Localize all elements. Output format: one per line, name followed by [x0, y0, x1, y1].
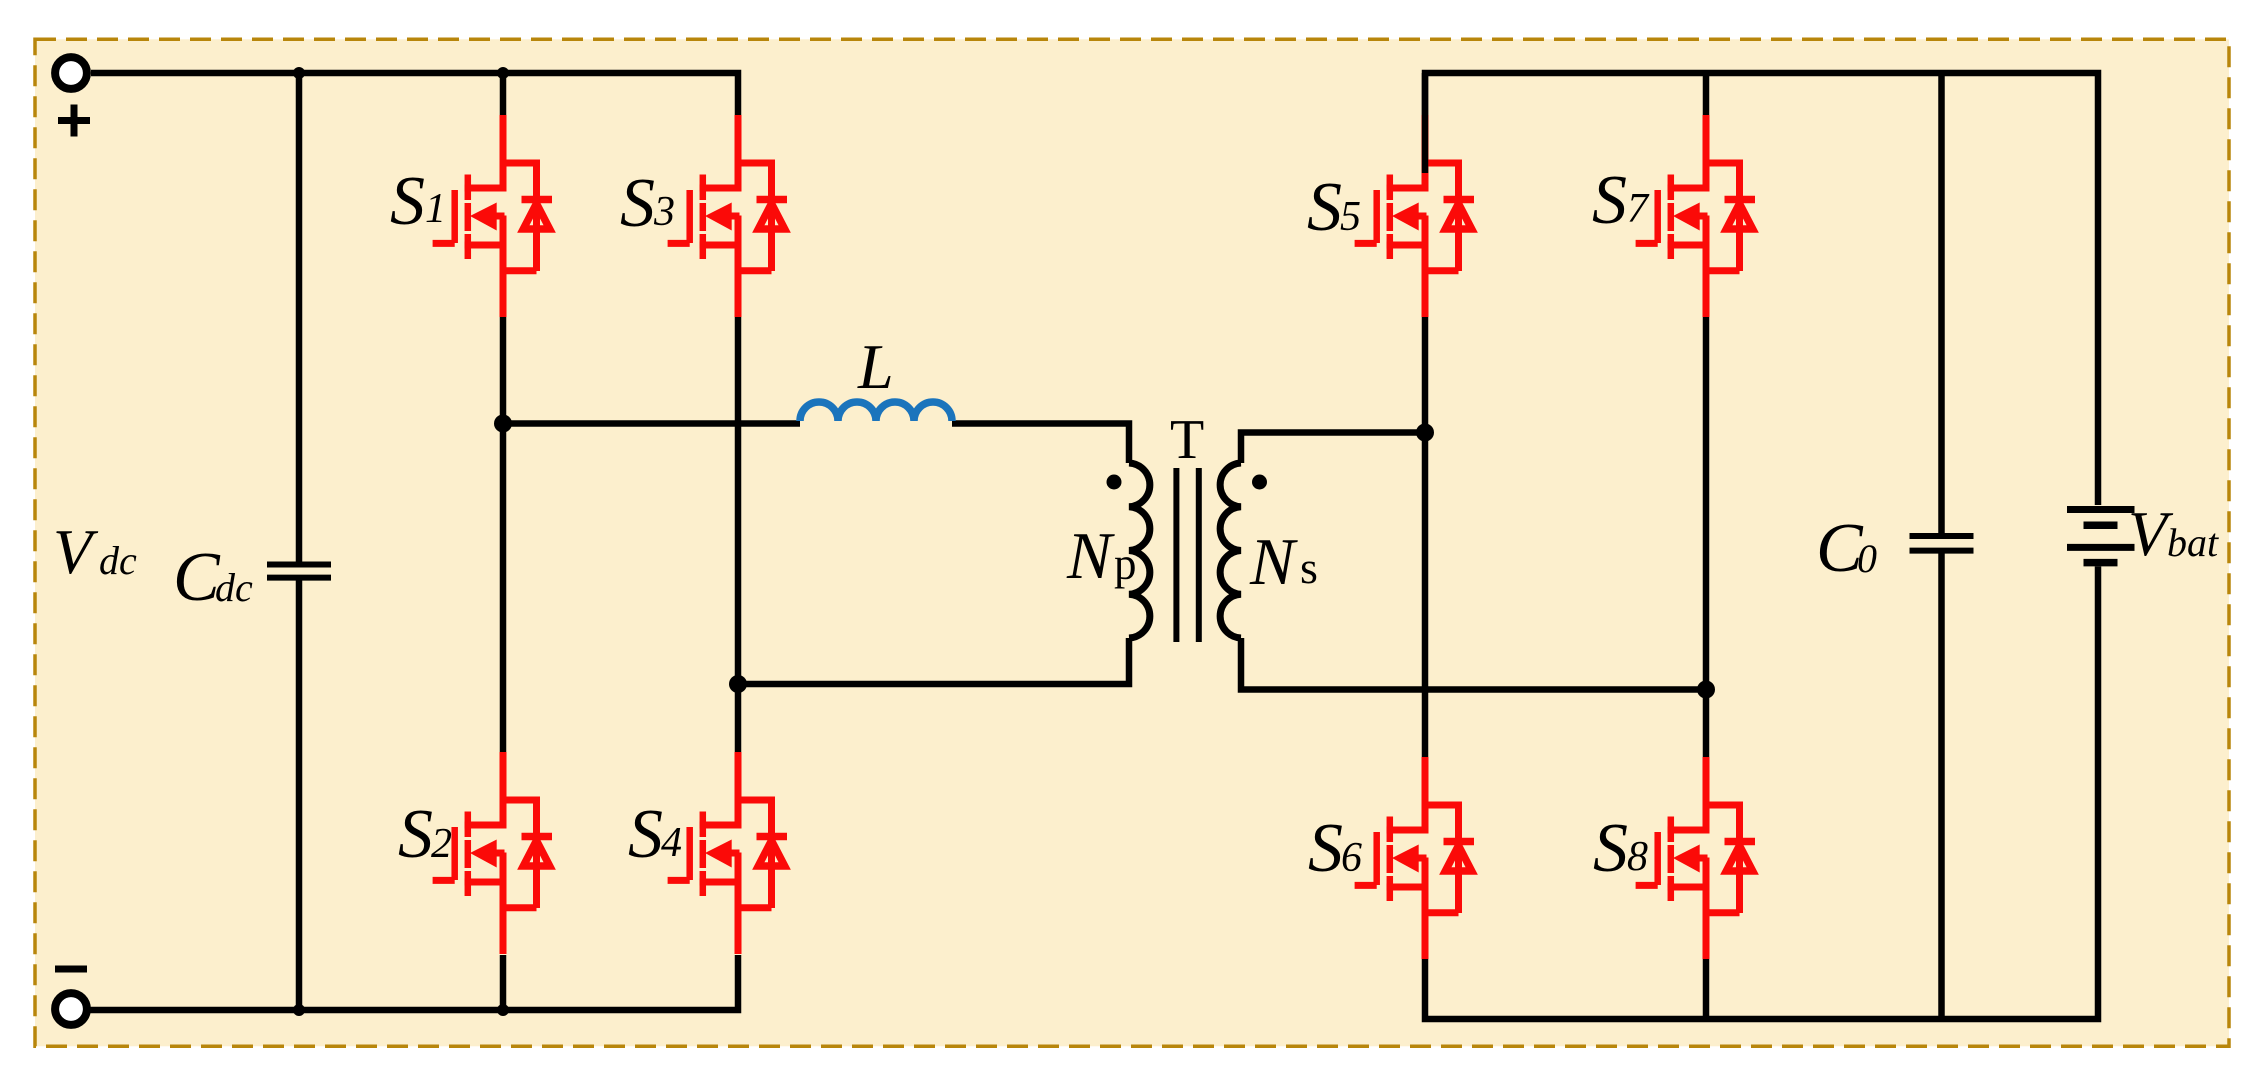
- junction bottom rail / Cdc: [293, 1004, 305, 1016]
- capacitor Cdc: [267, 565, 331, 578]
- svg-text:N: N: [1249, 525, 1298, 599]
- wire S2 source stub: [500, 955, 507, 1010]
- svg-text:p: p: [1114, 539, 1137, 589]
- svg-text:N: N: [1066, 519, 1115, 593]
- svg-text:S: S: [1308, 810, 1343, 887]
- label S8: [1593, 810, 1648, 887]
- wire bottom-left rail: [90, 955, 738, 1010]
- Vdc + terminal: [55, 57, 87, 89]
- inductor L: [800, 402, 952, 421]
- svg-text:4: 4: [661, 820, 682, 866]
- label S1: [390, 163, 446, 240]
- svg-text:dc: dc: [215, 565, 253, 610]
- svg-text:dc: dc: [99, 538, 137, 583]
- junction top rail / S1: [497, 67, 509, 79]
- wire S7-S8 interconnect: [1703, 316, 1710, 757]
- wire S8 source stub: [1703, 959, 1710, 1019]
- secondary polarity dot: [1252, 475, 1267, 490]
- wire inductor to primary top: [952, 424, 1129, 464]
- svg-text:T: T: [1170, 409, 1204, 471]
- wire S5 drain stub (black): [1422, 73, 1429, 173]
- label Np: [1066, 519, 1137, 593]
- junction bottom rail / S2: [497, 1004, 509, 1016]
- svg-text:0: 0: [1857, 536, 1877, 581]
- wire top-right rail: [1425, 73, 2098, 505]
- junction node D (S7-S8 midpoint): [1697, 681, 1715, 699]
- transistor S5 (MOSFET): [1355, 115, 1474, 317]
- transistor S4 (MOSFET): [668, 752, 787, 954]
- label S4: [628, 796, 682, 873]
- junction node C (S5-S6 midpoint): [1416, 424, 1434, 442]
- svg-text:S: S: [1593, 810, 1628, 887]
- junction node A (S1-S2 midpoint): [494, 415, 512, 433]
- transistor S3 (MOSFET): [668, 115, 787, 317]
- svg-text:S: S: [390, 163, 425, 240]
- label S3: [620, 165, 675, 242]
- Vdc - terminal: [55, 993, 87, 1025]
- label Cdc: [173, 539, 253, 616]
- wire S1 drain stub: [500, 73, 507, 116]
- label S5: [1307, 169, 1361, 246]
- transistor S2 (MOSFET): [433, 752, 552, 954]
- svg-text:C: C: [173, 539, 221, 616]
- svg-text:S: S: [628, 796, 663, 873]
- wire secondary bottom lead: [1241, 638, 1706, 690]
- battery Vbat: [2067, 510, 2135, 563]
- transistor S8 (MOSFET): [1636, 757, 1755, 959]
- capacitor C0: [1910, 536, 1974, 551]
- svg-text:7: 7: [1627, 186, 1650, 232]
- wire primary bottom lead: [738, 638, 1129, 684]
- svg-text:S: S: [398, 796, 433, 873]
- transformer T primary winding: [1129, 463, 1150, 638]
- wire bottom-right rail: [1425, 567, 2098, 1020]
- wire S1-S2 interconnect: [500, 316, 507, 752]
- wire S5-S6 interconnect: [1422, 316, 1429, 757]
- transformer T secondary winding: [1220, 463, 1241, 638]
- transistor S6 (MOSFET): [1355, 757, 1474, 959]
- svg-text:S: S: [1592, 162, 1627, 239]
- wire top-left rail: [91, 73, 738, 116]
- label S7: [1592, 162, 1650, 239]
- primary polarity dot: [1107, 475, 1122, 490]
- wire S3-S4 interconnect: [735, 316, 742, 752]
- svg-text:3: 3: [653, 189, 675, 235]
- svg-text:S: S: [1307, 169, 1342, 246]
- svg-text:S: S: [620, 165, 655, 242]
- label C0: [1816, 510, 1877, 587]
- transistor S7 (MOSFET): [1636, 115, 1755, 317]
- transistor S1 (MOSFET): [433, 115, 552, 317]
- svg-text:2: 2: [431, 821, 452, 867]
- label Ns: [1249, 525, 1318, 599]
- wire secondary top lead: [1241, 433, 1425, 464]
- wire S7 drain stub: [1703, 73, 1710, 116]
- label Vbat: [2128, 498, 2219, 569]
- wire C0 top lead: [1938, 73, 1945, 533]
- svg-text:6: 6: [1341, 835, 1362, 881]
- svg-text:1: 1: [425, 186, 446, 232]
- label Vdc: [53, 516, 137, 587]
- svg-text:L: L: [857, 331, 894, 402]
- svg-text:bat: bat: [2167, 520, 2219, 565]
- transformer core: [1176, 468, 1198, 642]
- minus sign: [55, 966, 87, 973]
- label S2: [398, 796, 452, 873]
- svg-text:8: 8: [1627, 834, 1648, 880]
- svg-text:s: s: [1300, 542, 1318, 593]
- wire C0 bottom lead: [1938, 554, 1945, 1020]
- junction node B (S3-S4 midpoint): [729, 675, 747, 693]
- svg-text:5: 5: [1340, 194, 1361, 240]
- wire Cdc top lead: [296, 73, 303, 562]
- plus sign: [58, 105, 90, 137]
- wire Cdc bottom lead: [296, 581, 303, 1011]
- label S6: [1308, 810, 1362, 887]
- junction top rail / Cdc: [293, 67, 305, 79]
- wire mid rail node A: [503, 420, 800, 427]
